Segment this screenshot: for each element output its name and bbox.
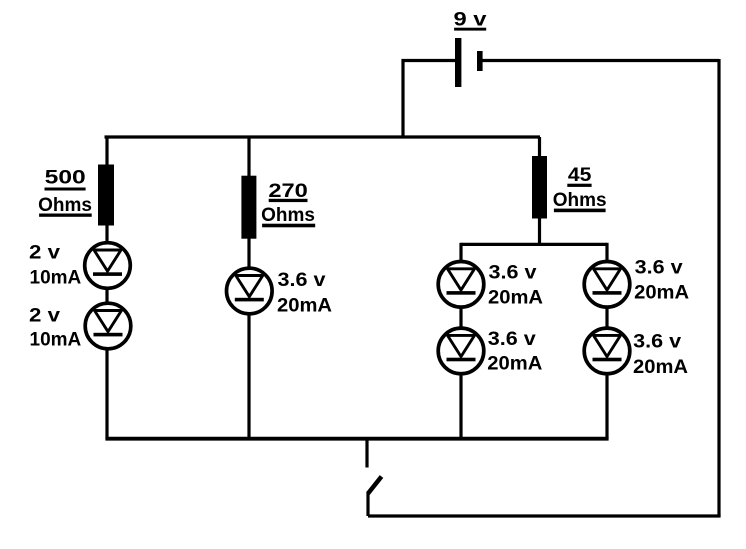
svg-text:500: 500 bbox=[45, 168, 86, 189]
svg-text:2 v: 2 v bbox=[29, 306, 60, 327]
svg-text:3.6 v: 3.6 v bbox=[488, 329, 536, 350]
svg-text:20mA: 20mA bbox=[277, 296, 332, 317]
svg-text:3.6 v: 3.6 v bbox=[278, 270, 326, 291]
svg-text:2 v: 2 v bbox=[29, 243, 60, 264]
svg-text:270: 270 bbox=[268, 181, 308, 202]
svg-text:3.6 v: 3.6 v bbox=[489, 263, 537, 284]
svg-text:3.6 v: 3.6 v bbox=[633, 332, 681, 353]
svg-text:Ohms: Ohms bbox=[553, 190, 607, 211]
svg-text:3.6 v: 3.6 v bbox=[635, 258, 683, 279]
svg-text:10mA: 10mA bbox=[30, 330, 82, 351]
svg-text:20mA: 20mA bbox=[634, 283, 689, 304]
svg-text:Ohms: Ohms bbox=[261, 205, 315, 226]
svg-text:9 v: 9 v bbox=[454, 10, 488, 31]
svg-text:45: 45 bbox=[568, 165, 592, 186]
svg-text:Ohms: Ohms bbox=[38, 195, 92, 216]
svg-text:10mA: 10mA bbox=[30, 268, 82, 289]
svg-text:20mA: 20mA bbox=[488, 288, 543, 309]
svg-text:20mA: 20mA bbox=[487, 354, 542, 375]
svg-text:20mA: 20mA bbox=[633, 357, 688, 378]
